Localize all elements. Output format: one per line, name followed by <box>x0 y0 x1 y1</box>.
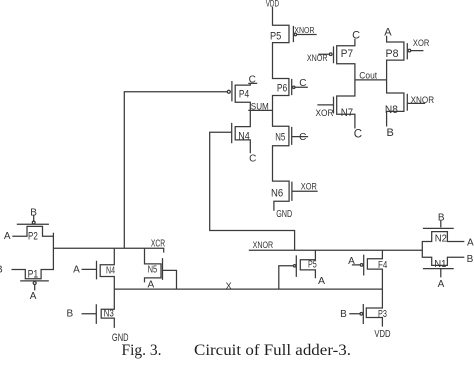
svg-text:N5: N5 <box>275 132 285 144</box>
svg-text:N1: N1 <box>434 259 447 270</box>
svg-text:A: A <box>73 265 80 276</box>
svg-text:X: X <box>226 281 232 291</box>
svg-text:P1: P1 <box>28 269 39 281</box>
svg-text:C: C <box>354 129 362 141</box>
svg-text:P7: P7 <box>341 48 353 60</box>
svg-text:A: A <box>318 275 325 287</box>
svg-text:VDD: VDD <box>266 0 280 9</box>
svg-text:N2: N2 <box>435 233 448 244</box>
svg-text:P4: P4 <box>239 89 249 101</box>
svg-text:Fig. 3.: Fig. 3. <box>122 342 162 359</box>
svg-text:N7: N7 <box>341 107 353 119</box>
svg-text:GND: GND <box>276 209 292 220</box>
svg-text:B: B <box>340 309 347 320</box>
svg-text:XNOR: XNOR <box>307 53 328 64</box>
svg-text:N5: N5 <box>148 264 158 275</box>
svg-text:Cout: Cout <box>359 70 377 81</box>
svg-text:C: C <box>299 78 306 89</box>
svg-text:C: C <box>299 132 306 143</box>
svg-text:A: A <box>384 26 392 38</box>
svg-text:B: B <box>0 265 3 276</box>
svg-text:XOR: XOR <box>316 108 334 119</box>
svg-text:XNOR: XNOR <box>411 95 435 106</box>
svg-text:N6: N6 <box>271 188 283 200</box>
svg-text:P5: P5 <box>308 260 317 271</box>
svg-text:B: B <box>387 127 394 139</box>
svg-text:XNOR: XNOR <box>294 25 314 35</box>
svg-text:A: A <box>348 256 355 267</box>
svg-text:P2: P2 <box>28 230 38 242</box>
svg-text:B: B <box>438 213 445 224</box>
svg-text:VDD: VDD <box>374 329 390 340</box>
svg-text:F4: F4 <box>378 260 388 271</box>
svg-text:N4: N4 <box>238 131 250 143</box>
svg-text:C: C <box>249 74 256 85</box>
svg-text:A: A <box>438 279 445 290</box>
svg-text:A: A <box>30 291 37 302</box>
svg-text:P5: P5 <box>270 31 281 43</box>
svg-text:A: A <box>467 237 474 248</box>
svg-text:XNOR: XNOR <box>253 240 274 251</box>
svg-text:A: A <box>4 231 11 242</box>
svg-text:XOR: XOR <box>413 38 430 49</box>
svg-text:SUM: SUM <box>251 101 269 111</box>
svg-text:XOR: XOR <box>301 181 317 192</box>
svg-text:A: A <box>147 280 154 291</box>
svg-text:C: C <box>352 29 360 41</box>
svg-text:XCR: XCR <box>151 239 165 250</box>
svg-text:P3: P3 <box>378 309 387 320</box>
svg-text:N4: N4 <box>106 266 115 277</box>
svg-text:N3: N3 <box>104 309 115 320</box>
svg-text:Circuit of Full adder-3.: Circuit of Full adder-3. <box>194 342 351 359</box>
svg-text:C: C <box>249 153 256 164</box>
svg-text:N8: N8 <box>385 104 398 116</box>
svg-text:B: B <box>66 308 73 319</box>
svg-text:P6: P6 <box>277 82 287 94</box>
svg-text:B: B <box>467 254 474 265</box>
svg-text:B: B <box>30 207 37 218</box>
svg-text:P8: P8 <box>386 48 399 60</box>
